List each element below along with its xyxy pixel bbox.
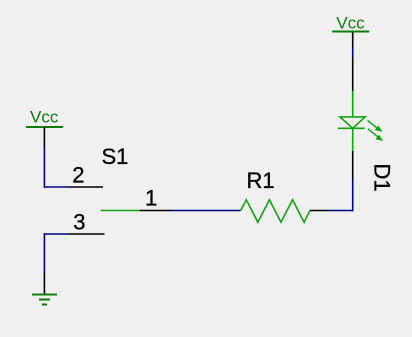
- wire Vcc1 to S1 pin2, vertical segment: [43, 147, 45, 188]
- switch S1 pin 3: [68, 233, 105, 235]
- ground bar 1: [32, 294, 57, 296]
- svg-text:S1: S1: [102, 144, 129, 169]
- power Vcc left: pin: [43, 127, 45, 147]
- LED D1 cathode pin: [352, 151, 354, 180]
- power Vcc right: pin: [352, 32, 354, 48]
- switch S1 pin 2: [68, 186, 103, 188]
- svg-text:Vcc: Vcc: [30, 108, 59, 127]
- svg-text:Vcc: Vcc: [336, 13, 365, 32]
- resistor R1 right pin: [310, 210, 330, 212]
- LED D1 emission arrow 2: [368, 129, 382, 140]
- svg-text:D1: D1: [370, 164, 395, 192]
- wire Vcc1 to S1 pin2, horizontal segment: [44, 186, 68, 188]
- svg-text:2: 2: [72, 163, 84, 188]
- power Vcc left: bar: [26, 126, 63, 128]
- resistor R1 body: [241, 200, 310, 223]
- switch S1 pin 1: [139, 210, 172, 212]
- ground pin: [43, 273, 45, 295]
- wire S1 pin3 to ground, vertical segment: [43, 233, 45, 273]
- power Vcc right: bar: [332, 31, 369, 33]
- svg-text:3: 3: [73, 210, 85, 235]
- LED D1 emission arrow 1: [368, 120, 381, 130]
- wire S1 pin3 to ground, horizontal segment: [44, 233, 68, 235]
- wire S1 pin1 to R1: [172, 210, 241, 212]
- switch S1 lever (green body graphic): [101, 210, 140, 212]
- wire R1 to D1, horizontal segment: [329, 210, 353, 212]
- svg-text:1: 1: [145, 186, 157, 211]
- wire Vcc2 to D1: [352, 47, 354, 58]
- LED D1 body: [338, 91, 365, 151]
- LED D1 anode pin: [352, 58, 354, 91]
- ground bar 3: [42, 304, 47, 306]
- svg-text:R1: R1: [247, 168, 275, 193]
- ground bar 2: [39, 299, 50, 301]
- wire R1 to D1, vertical segment: [352, 180, 354, 211]
